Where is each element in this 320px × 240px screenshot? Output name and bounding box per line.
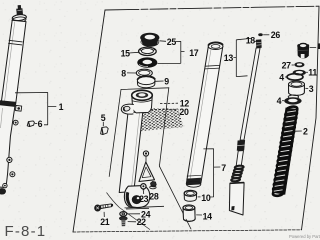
fork tube 7 top rim: [208, 43, 223, 50]
main box bottom edge: [73, 230, 302, 232]
svg-text:27: 27: [282, 60, 292, 70]
clip 6: [27, 121, 34, 127]
svg-text:5: 5: [101, 113, 106, 123]
bolt 28: [151, 181, 157, 187]
center box right edge: [159, 88, 168, 166]
svg-text:4: 4: [279, 73, 284, 83]
fork assembly 1: cap bolt head: [16, 8, 23, 15]
fork assembly 1: cap bolt nub: [18, 5, 22, 9]
dashed leader 12: [160, 102, 178, 104]
PARTS-LEFT: [0, 5, 56, 195]
svg-text:15: 15: [121, 48, 131, 58]
svg-text:8: 8: [121, 68, 126, 78]
leader 3: [305, 87, 308, 89]
slider 5: top rim: [132, 90, 153, 100]
fork tube 7 upper band: [205, 65, 220, 69]
leader 4 lower: [282, 100, 284, 102]
bushing 10: [184, 193, 196, 199]
svg-text:13: 13: [224, 53, 234, 63]
fork assembly 1: upper lug bolt: [13, 120, 18, 125]
bracket 13: [233, 38, 250, 76]
fork assembly 1: slider top tab: [16, 105, 22, 111]
leader 9: [155, 80, 163, 82]
svg-text:28: 28: [149, 192, 159, 202]
fork assembly 1: mid lug bolt: [7, 157, 12, 162]
slider 5: left boss: [121, 104, 134, 114]
svg-text:2: 2: [303, 127, 308, 137]
backup ring 8: [136, 69, 152, 77]
leader 6: [35, 123, 37, 125]
fork assembly 1: slider body: [0, 105, 15, 188]
leader 18: [254, 40, 256, 42]
svg-text:4: 4: [277, 96, 282, 106]
fork assembly 1: top cap collar: [12, 14, 27, 21]
main box top edge: [105, 6, 319, 10]
leader 27: [292, 64, 294, 66]
svg-text:26: 26: [271, 30, 281, 40]
leader 15: [129, 51, 139, 54]
leader 22: [128, 221, 136, 223]
clip 5: [101, 127, 109, 135]
stopper ring 15: [139, 47, 157, 55]
bracket for item 1: [15, 93, 56, 125]
leader 2: [295, 130, 302, 132]
main box right edge: [302, 6, 320, 230]
slider 5: top neck: [132, 95, 153, 113]
leader 23: [143, 191, 145, 194]
fork assembly 1: upper tube: [1, 20, 26, 104]
piston rod top 18: [256, 39, 262, 48]
damper piston: [237, 140, 245, 151]
svg-text:14: 14: [203, 211, 213, 221]
leader 4 upper: [285, 76, 287, 78]
dashed leader 20: [151, 108, 179, 110]
svg-text:6: 6: [38, 119, 43, 129]
leader seal to bracket 17: [157, 62, 180, 64]
svg-text:1: 1: [59, 102, 64, 112]
fork assembly 1: lower lug bolt: [10, 172, 15, 177]
fork assembly 1: axle tip: [0, 188, 6, 194]
o-ring 4 upper: [287, 74, 303, 80]
fork assembly 1: axle lug bolt: [3, 183, 7, 187]
damper rod mid shaft: [236, 151, 243, 166]
socket bolt 21 head: [94, 205, 101, 212]
center box left edge: [109, 90, 121, 177]
leader 14: [196, 214, 202, 216]
svg-text:17: 17: [189, 48, 199, 58]
bracket 17: [176, 41, 185, 63]
leader 26: [263, 34, 269, 36]
svg-text:11: 11: [308, 67, 317, 77]
svg-text:24: 24: [141, 210, 151, 220]
cap nut 25 top ring: [140, 33, 159, 43]
svg-text:20: 20: [179, 107, 189, 117]
socket bolt 21 shaft: [101, 204, 112, 209]
svg-text:7: 7: [221, 163, 226, 173]
o-ring 4 lower top edge: [288, 95, 298, 99]
leader 24: [127, 213, 140, 215]
leader fork cap: [310, 46, 317, 48]
center box diagonal edge: [159, 166, 191, 229]
fork cap bolt: [297, 46, 309, 59]
spacer 3: [289, 84, 305, 93]
axle housing: [124, 186, 149, 208]
leader 21: [103, 212, 105, 217]
oil lock piece at rod bottom: [229, 183, 244, 215]
center box top edge: [121, 88, 169, 90]
fork spring 2: [272, 106, 299, 197]
rebound spring coil: [235, 165, 244, 169]
leader 25: [160, 40, 167, 43]
fork assembly 1: slider top ring: [0, 100, 16, 106]
bolt 23: [141, 184, 146, 189]
axle clamp lower lip lines: [125, 206, 165, 209]
PARTS-BOLTS: [94, 181, 156, 226]
rib triangle: [139, 162, 155, 182]
rib bolt ring: [143, 151, 148, 156]
PARTS-ROD: [229, 33, 269, 215]
slider 5: stipple area: [132, 108, 184, 132]
damper rod 13 shaft: [240, 48, 260, 140]
svg-text:F-8-1: F-8-1: [5, 223, 47, 240]
PARTS-TUBE7: [183, 42, 223, 221]
slider 5: body tube: [119, 112, 143, 193]
bushing 14: [183, 207, 195, 219]
fork tube 7 bottom band: [187, 174, 201, 177]
oil seal (17 group): [137, 57, 157, 67]
leader 10: [198, 196, 201, 198]
oil lock notch: [231, 206, 234, 210]
svg-text:25: 25: [167, 37, 177, 47]
leader 5: [102, 122, 104, 126]
svg-text:10: 10: [201, 193, 211, 203]
o-ring 27: [294, 62, 304, 67]
bracket 7: [203, 149, 220, 197]
clamp outline curve: [107, 193, 151, 230]
PARTS-RIGHT: [282, 43, 320, 105]
svg-text:23: 23: [139, 194, 149, 204]
bushing 9: [137, 77, 155, 85]
bolt 22: [119, 217, 127, 221]
svg-text:3: 3: [309, 84, 314, 94]
PARTS-CENTER: [101, 90, 184, 229]
spring seat 4 lower: [284, 97, 301, 104]
leader 11: [306, 71, 308, 73]
cut-off label at edge: [318, 43, 320, 49]
cap nut 25 body: [141, 37, 160, 47]
leader 8: [127, 72, 136, 74]
svg-text:21: 21: [100, 217, 110, 227]
PARTS-STACK: [127, 33, 185, 88]
stopper ring 26: [258, 33, 263, 36]
svg-text:Powered by Parts: Powered by Parts: [289, 234, 320, 239]
fork assembly 1: clamp band: [8, 40, 22, 45]
washer 11: [293, 70, 306, 76]
svg-text:18: 18: [246, 36, 256, 46]
svg-text:9: 9: [164, 77, 169, 87]
washer 24: [120, 212, 127, 217]
fork tube 7 body: [186, 46, 223, 184]
main box left edge: [73, 10, 105, 232]
